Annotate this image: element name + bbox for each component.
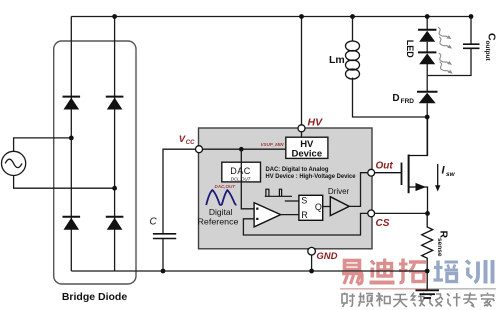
driver U5	[330, 197, 349, 216]
inductor Lm wires	[353, 17, 428, 118]
watermark line2 频	[359, 293, 374, 307]
svg-text:R: R	[301, 210, 308, 220]
node C bottom junction	[161, 269, 166, 274]
wire HV stem	[301, 17, 303, 126]
wire DAC vertical	[241, 149, 254, 209]
svg-text:CS: CS	[376, 218, 390, 229]
svg-text:FRD: FRD	[401, 98, 415, 105]
top rail wire	[71, 16, 471, 18]
node LED top junction	[425, 14, 430, 19]
node HV top junction	[299, 14, 304, 19]
wire HV pin to HV Device box	[301, 132, 303, 138]
svg-text:Bridge Diode: Bridge Diode	[62, 291, 127, 303]
wire Vcc to HV Device	[203, 148, 286, 150]
diode D2 (bridge upper-right)	[106, 97, 124, 110]
inductor Lm coil	[346, 41, 360, 79]
watermark underline	[340, 288, 430, 290]
svg-text:HV Device : High-Voltage Devic: HV Device : High-Voltage Device	[266, 173, 356, 180]
pin CS	[368, 210, 375, 217]
capacitor Coutput	[463, 44, 480, 48]
svg-text:DAC: DAC	[230, 166, 251, 176]
watermark line2 射	[342, 293, 355, 308]
LED light arrows	[438, 27, 451, 39]
AC source V1	[2, 138, 115, 188]
svg-text:DAC,OUT: DAC,OUT	[215, 184, 237, 189]
bridge leg1 wire	[70, 17, 72, 272]
svg-text:CC: CC	[186, 140, 195, 146]
wire CS to source	[375, 212, 428, 214]
node source junction	[425, 211, 430, 216]
diode D4 (bridge lower-right)	[106, 217, 124, 230]
pin Out	[368, 169, 375, 176]
node DFRD bottom junction	[425, 115, 430, 120]
ground	[416, 271, 440, 298]
svg-text:LED: LED	[405, 40, 415, 59]
wire Q to driver	[323, 206, 331, 208]
capacitor C	[153, 234, 176, 239]
node top-rail leg2 junction	[112, 14, 117, 19]
bridge box	[54, 41, 136, 284]
label Rsense	[436, 231, 450, 257]
wire Vcc to C	[163, 149, 196, 271]
svg-text:S: S	[301, 196, 307, 206]
svg-text:V: V	[179, 134, 186, 145]
LED2	[418, 52, 436, 64]
pin HV	[298, 125, 305, 132]
pin GND	[308, 247, 316, 255]
node AC+ junction	[69, 136, 74, 141]
pin Vcc	[196, 146, 203, 153]
watermark line1 char 训	[466, 260, 493, 284]
svg-text:HV: HV	[308, 117, 324, 129]
watermark line2 计	[447, 293, 461, 307]
svg-text:GND: GND	[316, 251, 337, 262]
node AC- junction	[112, 186, 117, 191]
svg-text:Out: Out	[376, 161, 394, 172]
svg-text:DCL,OUT: DCL,OUT	[231, 176, 252, 181]
label Coutput	[484, 33, 496, 62]
bridge leg2 wire	[114, 17, 116, 272]
node Lm top junction	[350, 14, 355, 19]
svg-text:Device: Device	[291, 149, 322, 160]
svg-text:Q: Q	[315, 202, 322, 212]
resistor Rsense	[422, 213, 433, 271]
wire GND stem	[311, 255, 313, 271]
svg-text:Digital: Digital	[209, 207, 233, 217]
watermark line2 线	[412, 293, 426, 307]
capacitor Coutput wires	[427, 17, 471, 76]
bottom rail wire	[71, 270, 427, 272]
watermark line1 char 培	[434, 261, 459, 282]
node Rsense bottom junction	[425, 269, 430, 274]
svg-text:VSUP_MIN: VSUP_MIN	[261, 142, 285, 147]
diode DFRD	[417, 92, 438, 104]
IC block U1	[199, 128, 373, 249]
HV Device box	[286, 137, 328, 158]
svg-text:Driver: Driver	[328, 187, 350, 196]
watermark line2 和	[376, 293, 390, 307]
svg-text:DAC: Digital to Analog: DAC: Digital to Analog	[266, 166, 329, 173]
svg-text:C: C	[150, 217, 158, 228]
node GND junction	[309, 269, 314, 274]
watermark line1 char 迪	[370, 259, 395, 283]
watermark line2 家	[481, 293, 495, 307]
wire CS feedback	[243, 213, 367, 235]
wire driver out to Out pin	[349, 173, 368, 207]
pulse waveform glyph	[265, 189, 292, 196]
current Isw arrow	[437, 164, 439, 187]
SR latch U4	[299, 195, 323, 220]
svg-text:sw: sw	[446, 171, 456, 178]
watermark line1 char 易	[342, 261, 363, 285]
svg-text:sense: sense	[436, 238, 443, 257]
blue reference waveform	[206, 190, 236, 205]
watermark line1 char 拓	[399, 259, 426, 283]
transistor Q1 (MOSFET)	[375, 117, 428, 213]
node Coutput top junction	[469, 14, 474, 19]
watermark line2 天	[393, 295, 408, 308]
svg-text:Lm: Lm	[329, 54, 345, 66]
svg-text:D: D	[392, 93, 399, 104]
svg-text:output: output	[484, 41, 491, 62]
watermark line2 专	[463, 293, 477, 307]
comparator U3	[254, 203, 281, 227]
LED string wire	[426, 17, 428, 156]
diode D3 (bridge lower-left)	[63, 217, 81, 230]
wire S input	[285, 200, 299, 202]
wire comparator out to R	[281, 214, 299, 216]
svg-text:Reference: Reference	[198, 216, 239, 226]
diode D1 (bridge upper-left)	[63, 97, 81, 110]
node Vcc-DAC junction	[239, 147, 244, 152]
LED1	[418, 30, 436, 42]
watermark line2 设	[429, 294, 443, 307]
DAC box U2	[222, 162, 261, 182]
